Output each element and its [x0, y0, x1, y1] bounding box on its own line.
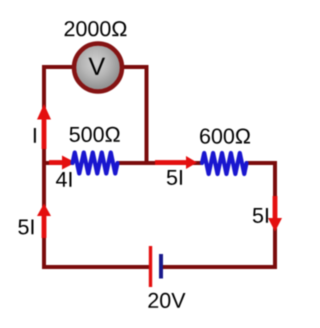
voltmeter U1 letter V	[89, 58, 105, 75]
wire top rail to voltmeter	[42, 65, 148, 69]
wire middle rail between resistors	[117, 161, 204, 165]
wire bottom rail left of battery	[42, 265, 149, 269]
current label 5I (right branch)	[253, 208, 268, 223]
current arrow 5I (right, into 600 ohm resistor)	[155, 156, 197, 169]
wire middle rail left stub	[42, 161, 74, 165]
resistor R1 500 ohm zigzag	[73, 153, 118, 174]
wire left vertical (node A top-left to bottom-left)	[42, 67, 46, 267]
value label 500Ω for resistor R1	[70, 127, 120, 142]
resistor R2 600 ohm zigzag	[202, 153, 247, 174]
current label 5I (left branch, lower)	[18, 220, 33, 235]
current label I (left branch, above junction)	[34, 128, 36, 143]
wire right vertical	[273, 161, 277, 267]
value label 600Ω for resistor R2	[200, 128, 250, 143]
current arrow I (up, left wire upper)	[37, 104, 51, 149]
current label 5I (into R2)	[167, 170, 182, 185]
wire voltmeter right branch vertical	[145, 65, 149, 163]
battery B1 negative plate (short navy)	[159, 254, 163, 279]
current arrow 4I (right, into 500 ohm resistor)	[49, 156, 76, 170]
current arrow 5I (up, left wire lower)	[37, 204, 51, 239]
value label 20V for battery B1	[148, 293, 185, 308]
value label 2000Ω (voltmeter internal resistance)	[65, 21, 127, 36]
voltmeter U1 body	[74, 44, 122, 92]
wire bottom rail right of battery	[162, 265, 277, 269]
battery B1 positive plate (long red)	[149, 246, 152, 287]
wire middle rail right stub	[246, 161, 278, 165]
current label 4I (through R1)	[56, 172, 71, 187]
current arrow 5I (down, right wire)	[268, 196, 282, 232]
